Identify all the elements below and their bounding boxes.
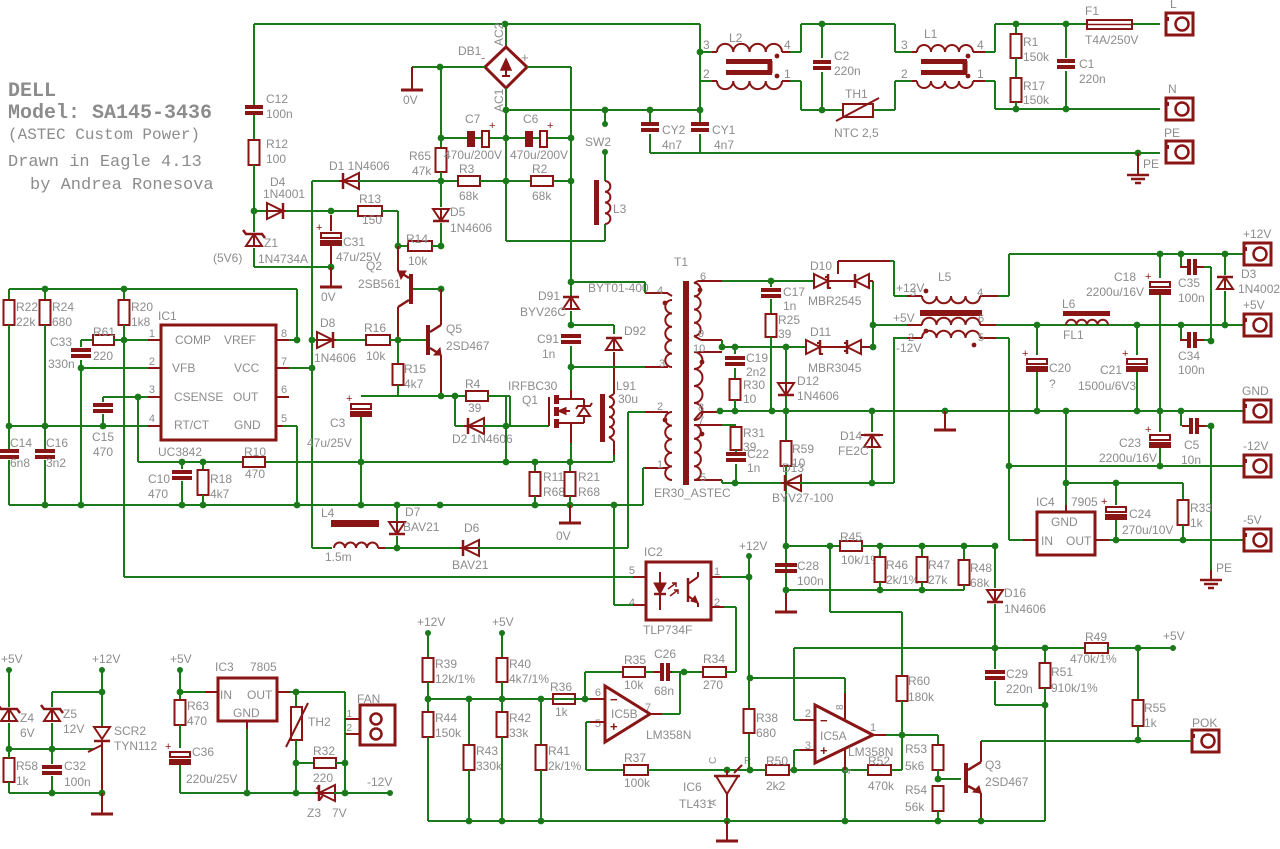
- svg-text:R11: R11: [543, 470, 564, 484]
- svg-text:CY2: CY2: [662, 123, 686, 137]
- svg-text:3: 3: [910, 287, 916, 299]
- svg-text:-12V: -12V: [367, 775, 392, 789]
- svg-text:270u/10V: 270u/10V: [1122, 523, 1173, 537]
- svg-text:C91: C91: [537, 332, 559, 346]
- svg-text:+5V: +5V: [492, 615, 514, 629]
- svg-text:1: 1: [657, 459, 663, 471]
- svg-text:MBR3045: MBR3045: [808, 361, 862, 375]
- svg-text:330n: 330n: [48, 357, 75, 371]
- svg-text:2: 2: [703, 67, 710, 81]
- svg-text:0V: 0V: [403, 93, 418, 107]
- svg-text:7905: 7905: [1071, 495, 1098, 509]
- svg-text:R17: R17: [1023, 79, 1045, 93]
- svg-text:R68: R68: [543, 485, 565, 499]
- svg-text:R42: R42: [509, 711, 531, 725]
- svg-text:OUT: OUT: [233, 390, 259, 404]
- svg-text:C12: C12: [266, 92, 288, 106]
- svg-text:C3: C3: [330, 416, 346, 430]
- svg-text:470: 470: [245, 467, 265, 481]
- svg-text:2k/1%: 2k/1%: [886, 573, 920, 587]
- svg-text:5: 5: [700, 472, 706, 484]
- svg-text:FL1: FL1: [1063, 328, 1084, 342]
- svg-text:R47: R47: [928, 558, 950, 572]
- svg-text:C36: C36: [192, 745, 214, 759]
- svg-text:R55: R55: [1144, 701, 1166, 715]
- svg-text:68k: 68k: [532, 189, 552, 203]
- svg-text:4n7: 4n7: [714, 138, 734, 152]
- svg-text:IC5A: IC5A: [820, 729, 847, 743]
- svg-text:1k8: 1k8: [131, 315, 151, 329]
- svg-text:4k7: 4k7: [404, 377, 424, 391]
- svg-text:C35: C35: [1178, 276, 1200, 290]
- svg-text:R37: R37: [624, 751, 646, 765]
- svg-text:47k: 47k: [412, 164, 432, 178]
- svg-text:D2 1N4606: D2 1N4606: [452, 432, 513, 446]
- svg-text:R18: R18: [210, 472, 232, 486]
- svg-text:10: 10: [693, 343, 705, 355]
- svg-text:R45: R45: [840, 530, 862, 544]
- svg-text:TLP734F: TLP734F: [643, 623, 692, 637]
- svg-text:SW2: SW2: [585, 135, 611, 149]
- svg-text:-: -: [481, 50, 485, 65]
- svg-text:R38: R38: [756, 711, 778, 725]
- svg-text:PE: PE: [1143, 157, 1159, 171]
- svg-text:C15: C15: [92, 430, 114, 444]
- svg-text:470: 470: [148, 487, 168, 501]
- svg-text:UC3842: UC3842: [158, 445, 202, 459]
- svg-text:2200u/16V: 2200u/16V: [1086, 285, 1144, 299]
- svg-text:L3: L3: [613, 202, 627, 216]
- svg-text:5: 5: [281, 413, 287, 425]
- svg-text:+: +: [820, 743, 828, 758]
- svg-text:C29: C29: [1006, 667, 1028, 681]
- svg-text:1k: 1k: [1190, 516, 1204, 530]
- svg-text:DELL: DELL: [8, 80, 56, 103]
- svg-text:6n8: 6n8: [10, 456, 30, 470]
- svg-text:12k/1%: 12k/1%: [435, 672, 475, 686]
- svg-text:IC1: IC1: [158, 309, 177, 323]
- svg-text:470: 470: [187, 714, 207, 728]
- svg-text:D13: D13: [782, 461, 804, 475]
- svg-text:0V: 0V: [321, 290, 336, 304]
- svg-text:(ASTEC Custom Power): (ASTEC Custom Power): [8, 126, 200, 144]
- svg-text:3n2: 3n2: [46, 456, 66, 470]
- svg-text:C21: C21: [1100, 363, 1122, 377]
- svg-text:C14: C14: [10, 436, 32, 450]
- svg-text:R65: R65: [409, 149, 431, 163]
- svg-text:CSENSE: CSENSE: [174, 390, 223, 404]
- svg-text:22k: 22k: [16, 315, 36, 329]
- svg-text:1k: 1k: [1144, 716, 1158, 730]
- svg-text:+12V: +12V: [417, 615, 445, 629]
- svg-text:4: 4: [977, 287, 983, 299]
- svg-text:C26: C26: [654, 647, 676, 661]
- svg-text:IC3: IC3: [215, 660, 234, 674]
- svg-text:PE: PE: [1164, 126, 1180, 140]
- svg-text:GND: GND: [1051, 515, 1078, 529]
- svg-text:68k: 68k: [970, 576, 990, 590]
- svg-text:8: 8: [698, 402, 704, 414]
- svg-text:680: 680: [52, 315, 72, 329]
- svg-text:L1: L1: [924, 27, 938, 41]
- svg-text:27k: 27k: [928, 573, 948, 587]
- svg-text:+12V: +12V: [92, 652, 120, 666]
- svg-text:C1: C1: [1079, 57, 1095, 71]
- svg-text:C18: C18: [1114, 270, 1136, 284]
- svg-text:R21: R21: [578, 470, 600, 484]
- svg-text:+5V: +5V: [1163, 629, 1185, 643]
- svg-text:D5: D5: [450, 205, 466, 219]
- svg-text:150k: 150k: [1023, 50, 1050, 64]
- svg-text:by Andrea Ronesova: by Andrea Ronesova: [30, 176, 214, 195]
- svg-text:+12V: +12V: [1243, 227, 1271, 241]
- svg-text:L6: L6: [1062, 297, 1076, 311]
- svg-text:150: 150: [362, 213, 382, 227]
- svg-text:1N4001: 1N4001: [263, 187, 305, 201]
- svg-text:D7: D7: [405, 505, 421, 519]
- svg-text:10n: 10n: [1181, 453, 1201, 467]
- svg-text:R61: R61: [93, 325, 115, 339]
- svg-text:+: +: [1101, 496, 1107, 508]
- svg-text:BYV26C: BYV26C: [520, 305, 566, 319]
- svg-text:−: −: [820, 713, 828, 728]
- svg-text:C19: C19: [746, 351, 768, 365]
- svg-text:470u/200V: 470u/200V: [510, 148, 568, 162]
- svg-text:6: 6: [281, 384, 287, 396]
- svg-text:D1 1N4606: D1 1N4606: [329, 159, 390, 173]
- svg-text:R4: R4: [465, 377, 481, 391]
- svg-text:1N4606: 1N4606: [450, 221, 492, 235]
- svg-text:68n: 68n: [654, 684, 674, 698]
- svg-text:2: 2: [657, 401, 663, 413]
- svg-text:4k7/1%: 4k7/1%: [509, 672, 549, 686]
- svg-text:IC5B: IC5B: [611, 707, 638, 721]
- svg-text:5: 5: [595, 718, 601, 730]
- svg-text:R63: R63: [187, 699, 209, 713]
- svg-text:−: −: [610, 692, 618, 707]
- svg-text:4: 4: [784, 38, 791, 52]
- svg-text:IC4: IC4: [1036, 495, 1055, 509]
- svg-text:100k: 100k: [624, 776, 651, 790]
- svg-text:7: 7: [281, 356, 287, 368]
- svg-text:TYN112: TYN112: [114, 739, 157, 753]
- svg-text:R59: R59: [792, 442, 814, 456]
- svg-text:910k/1%: 910k/1%: [1051, 681, 1098, 695]
- svg-text:30u: 30u: [618, 392, 638, 406]
- svg-text:4: 4: [149, 413, 155, 425]
- svg-text:2k/1%: 2k/1%: [548, 759, 582, 773]
- svg-text:1N4002: 1N4002: [1238, 282, 1280, 296]
- svg-text:100n: 100n: [797, 574, 824, 588]
- svg-text:BAV21: BAV21: [452, 558, 489, 572]
- svg-text:+: +: [346, 393, 352, 405]
- svg-text:220n: 220n: [1006, 682, 1033, 696]
- svg-text:R31: R31: [743, 426, 765, 440]
- svg-text:Model: SA145-3436: Model: SA145-3436: [8, 102, 212, 125]
- svg-text:CY1: CY1: [712, 123, 736, 137]
- svg-text:D3: D3: [1241, 267, 1257, 281]
- svg-text:OUT: OUT: [247, 688, 273, 702]
- svg-text:+5V: +5V: [1243, 298, 1265, 312]
- svg-text:10: 10: [743, 392, 757, 406]
- svg-text:+: +: [489, 120, 495, 132]
- svg-text:R20: R20: [131, 300, 153, 314]
- svg-text:1: 1: [784, 67, 791, 81]
- svg-text:C20: C20: [1049, 361, 1071, 375]
- svg-text:F1: F1: [1085, 4, 1099, 18]
- svg-text:R32: R32: [313, 744, 335, 758]
- svg-text:+5V: +5V: [893, 311, 915, 325]
- svg-text:VFB: VFB: [172, 361, 195, 375]
- svg-text:3: 3: [659, 358, 665, 370]
- svg-text:R: R: [744, 756, 751, 767]
- svg-text:150k: 150k: [1023, 93, 1050, 107]
- svg-text:?: ?: [1049, 377, 1056, 391]
- svg-text:C24: C24: [1129, 507, 1151, 521]
- svg-text:D92: D92: [624, 324, 646, 338]
- svg-text:T4A/250V: T4A/250V: [1085, 33, 1138, 47]
- svg-text:68k: 68k: [459, 189, 479, 203]
- svg-text:C32: C32: [64, 759, 86, 773]
- svg-text:+: +: [1022, 348, 1028, 360]
- svg-text:VREF: VREF: [224, 333, 256, 347]
- svg-text:+: +: [610, 719, 618, 734]
- svg-text:+12V: +12V: [739, 539, 767, 553]
- svg-text:3: 3: [149, 384, 155, 396]
- svg-text:D11: D11: [810, 325, 831, 339]
- svg-text:D91: D91: [538, 289, 560, 303]
- svg-text:Z4: Z4: [20, 711, 34, 725]
- svg-text:R34: R34: [703, 652, 725, 666]
- svg-text:1k: 1k: [16, 774, 30, 788]
- svg-text:56k: 56k: [905, 800, 925, 814]
- svg-text:470k: 470k: [868, 779, 895, 793]
- svg-text:GND: GND: [234, 418, 261, 432]
- svg-text:2SB561: 2SB561: [358, 277, 401, 291]
- svg-text:5: 5: [629, 565, 635, 577]
- svg-text:BYV27-100: BYV27-100: [772, 491, 834, 505]
- svg-text:IN: IN: [1041, 534, 1053, 548]
- svg-text:FAN: FAN: [357, 692, 380, 706]
- svg-text:6: 6: [595, 687, 601, 699]
- svg-text:1N4606: 1N4606: [797, 389, 839, 403]
- svg-text:180k: 180k: [908, 690, 935, 704]
- svg-text:10k: 10k: [624, 678, 644, 692]
- svg-text:POK: POK: [1192, 716, 1217, 730]
- svg-text:D6: D6: [464, 521, 480, 535]
- svg-text:+: +: [1145, 424, 1151, 436]
- svg-text:-5V: -5V: [1243, 513, 1262, 527]
- svg-text:C: C: [708, 757, 719, 764]
- svg-text:7805: 7805: [250, 660, 277, 674]
- svg-text:R43: R43: [476, 744, 498, 758]
- svg-text:R33: R33: [1190, 501, 1212, 515]
- svg-text:2: 2: [346, 723, 352, 734]
- svg-text:R40: R40: [509, 657, 531, 671]
- svg-text:R30: R30: [743, 378, 765, 392]
- svg-text:2: 2: [149, 356, 155, 368]
- svg-text:Q5: Q5: [446, 322, 462, 336]
- svg-text:+: +: [547, 120, 553, 132]
- svg-text:BAV21: BAV21: [403, 520, 440, 534]
- svg-text:GND: GND: [233, 706, 260, 720]
- svg-text:BYT01-400: BYT01-400: [588, 281, 649, 295]
- svg-text:150k: 150k: [435, 726, 462, 740]
- svg-text:100n: 100n: [266, 107, 293, 121]
- svg-text:100: 100: [266, 152, 286, 166]
- svg-text:1: 1: [870, 722, 876, 734]
- svg-text:R13: R13: [359, 192, 381, 206]
- svg-text:R68: R68: [578, 485, 600, 499]
- svg-text:C5: C5: [1184, 438, 1200, 452]
- svg-text:1.5m: 1.5m: [325, 550, 352, 564]
- svg-text:0V: 0V: [556, 529, 571, 543]
- svg-text:39: 39: [778, 327, 792, 341]
- svg-text:6: 6: [978, 313, 984, 325]
- svg-text:+: +: [1122, 348, 1128, 360]
- svg-text:470k/1%: 470k/1%: [1070, 652, 1117, 666]
- svg-text:COMP: COMP: [175, 333, 211, 347]
- svg-text:+: +: [165, 741, 171, 753]
- svg-text:+: +: [1145, 271, 1151, 283]
- svg-text:RT/CT: RT/CT: [174, 418, 210, 432]
- svg-text:1N4606: 1N4606: [314, 351, 356, 365]
- svg-text:220n: 220n: [834, 64, 861, 78]
- svg-text:AC2: AC2: [492, 22, 506, 46]
- svg-text:LM358N: LM358N: [646, 728, 691, 742]
- svg-text:C6: C6: [523, 112, 539, 126]
- svg-text:R39: R39: [435, 657, 457, 671]
- svg-text:R35: R35: [624, 653, 646, 667]
- svg-text:330k: 330k: [476, 759, 503, 773]
- svg-text:100n: 100n: [64, 775, 91, 789]
- svg-text:1: 1: [346, 709, 352, 720]
- svg-text:SCR2: SCR2: [114, 724, 146, 738]
- svg-text:1n: 1n: [783, 299, 796, 313]
- svg-text:FE2C: FE2C: [838, 444, 869, 458]
- svg-text:7: 7: [645, 702, 651, 714]
- svg-text:1500u/6V3: 1500u/6V3: [1078, 379, 1136, 393]
- svg-text:L91: L91: [616, 379, 636, 393]
- svg-text:C34: C34: [1178, 349, 1200, 363]
- svg-text:C22: C22: [747, 447, 769, 461]
- svg-text:R48: R48: [970, 561, 992, 575]
- svg-text:680: 680: [756, 726, 776, 740]
- svg-text:R10: R10: [244, 445, 266, 459]
- svg-text:R49: R49: [1085, 630, 1107, 644]
- svg-text:220: 220: [313, 771, 333, 785]
- svg-text:R22: R22: [16, 300, 38, 314]
- svg-text:8: 8: [281, 328, 287, 340]
- svg-text:R51: R51: [1051, 665, 1073, 679]
- svg-text:220u/25V: 220u/25V: [186, 772, 237, 786]
- svg-text:100n: 100n: [1178, 363, 1205, 377]
- svg-text:VCC: VCC: [234, 361, 260, 375]
- svg-text:4k7: 4k7: [210, 487, 230, 501]
- svg-text:1: 1: [977, 67, 984, 81]
- svg-text:NTC 2,5: NTC 2,5: [834, 126, 879, 140]
- svg-text:7V: 7V: [332, 806, 347, 820]
- svg-text:R54: R54: [905, 783, 927, 797]
- svg-text:L: L: [1170, 0, 1177, 11]
- svg-text:2n2: 2n2: [746, 365, 766, 379]
- svg-text:2: 2: [901, 67, 908, 81]
- svg-text:D14: D14: [840, 429, 862, 443]
- svg-text:12V: 12V: [63, 722, 84, 736]
- svg-text:L5: L5: [938, 270, 952, 284]
- svg-text:TH1: TH1: [845, 87, 868, 101]
- svg-text:N: N: [1168, 82, 1177, 96]
- svg-text:2k2: 2k2: [766, 779, 786, 793]
- svg-text:1N4734A: 1N4734A: [258, 252, 308, 266]
- svg-text:470u/200V: 470u/200V: [444, 148, 502, 162]
- svg-text:L4: L4: [321, 506, 335, 520]
- svg-text:6V: 6V: [20, 726, 35, 740]
- svg-text:A: A: [708, 799, 719, 806]
- svg-text:D10: D10: [810, 259, 832, 273]
- svg-text:R25: R25: [778, 313, 800, 327]
- svg-text:47u/25V: 47u/25V: [307, 436, 352, 450]
- svg-text:220: 220: [93, 349, 113, 363]
- svg-text:220n: 220n: [1079, 72, 1106, 86]
- svg-text:1n: 1n: [747, 461, 760, 475]
- svg-text:C23: C23: [1119, 436, 1141, 450]
- svg-text:39: 39: [468, 401, 482, 415]
- svg-text:5: 5: [978, 332, 984, 344]
- svg-text:C17: C17: [783, 285, 805, 299]
- svg-text:Drawn in Eagle 4.13: Drawn in Eagle 4.13: [8, 153, 202, 172]
- svg-text:R58: R58: [16, 759, 38, 773]
- svg-text:R15: R15: [404, 362, 426, 376]
- svg-text:3: 3: [901, 38, 908, 52]
- svg-text:C7: C7: [465, 112, 481, 126]
- svg-text:GND: GND: [1242, 384, 1269, 398]
- svg-text:R53: R53: [905, 742, 927, 756]
- svg-text:Q2: Q2: [366, 259, 382, 273]
- svg-text:100n: 100n: [1178, 291, 1205, 305]
- svg-text:4: 4: [629, 597, 635, 609]
- svg-text:Q1: Q1: [522, 393, 538, 407]
- svg-text:R3: R3: [459, 162, 475, 176]
- svg-text:T1: T1: [674, 255, 688, 269]
- svg-text:2200u/16V: 2200u/16V: [1099, 451, 1157, 465]
- svg-text:R44: R44: [435, 711, 457, 725]
- svg-text:R41: R41: [548, 744, 570, 758]
- svg-text:C10: C10: [148, 472, 170, 486]
- svg-text:C31: C31: [343, 235, 365, 249]
- svg-text:5k6: 5k6: [905, 759, 925, 773]
- svg-text:4n7: 4n7: [662, 138, 682, 152]
- svg-text:270: 270: [703, 678, 723, 692]
- svg-text:+: +: [316, 222, 322, 234]
- svg-text:4: 4: [657, 285, 663, 297]
- svg-text:-12V: -12V: [896, 341, 921, 355]
- svg-text:10k: 10k: [366, 349, 386, 363]
- svg-text:R12: R12: [266, 137, 288, 151]
- svg-text:TH2: TH2: [308, 715, 331, 729]
- svg-text:IRFBC30: IRFBC30: [508, 379, 558, 393]
- svg-text:2SD467: 2SD467: [985, 775, 1029, 789]
- svg-text:IN: IN: [220, 688, 232, 702]
- svg-text:1k: 1k: [555, 705, 569, 719]
- svg-text:C33: C33: [50, 335, 72, 349]
- svg-text:Z3: Z3: [307, 806, 321, 820]
- svg-text:IC2: IC2: [644, 545, 663, 559]
- svg-text:R16: R16: [364, 321, 386, 335]
- svg-text:C16: C16: [46, 436, 68, 450]
- svg-text:R24: R24: [52, 300, 74, 314]
- svg-text:(5V6): (5V6): [213, 251, 242, 265]
